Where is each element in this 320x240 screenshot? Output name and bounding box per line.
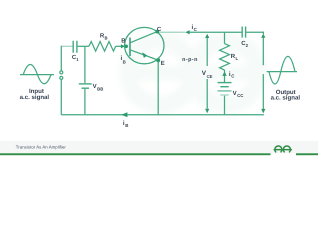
svg-text:CC: CC <box>237 93 243 98</box>
svg-text:a.c. signal: a.c. signal <box>20 94 50 101</box>
svg-text:a.c. signal: a.c. signal <box>271 95 301 102</box>
svg-text:B: B <box>121 38 126 45</box>
svg-text:B: B <box>105 35 108 40</box>
svg-text:BB: BB <box>97 86 103 91</box>
svg-text:1: 1 <box>76 57 79 62</box>
svg-text:C: C <box>157 26 162 33</box>
svg-text:B: B <box>125 123 128 128</box>
svg-text:n-p-n: n-p-n <box>182 57 198 63</box>
svg-text:Transistor As An Amplifier: Transistor As An Amplifier <box>16 144 67 149</box>
svg-text:L: L <box>236 56 239 61</box>
svg-text:B: B <box>123 60 126 65</box>
svg-text:V: V <box>93 83 97 90</box>
svg-text:E: E <box>161 60 165 67</box>
svg-text:V: V <box>233 90 237 97</box>
svg-text:CE: CE <box>207 74 213 79</box>
svg-text:C: C <box>194 27 198 32</box>
